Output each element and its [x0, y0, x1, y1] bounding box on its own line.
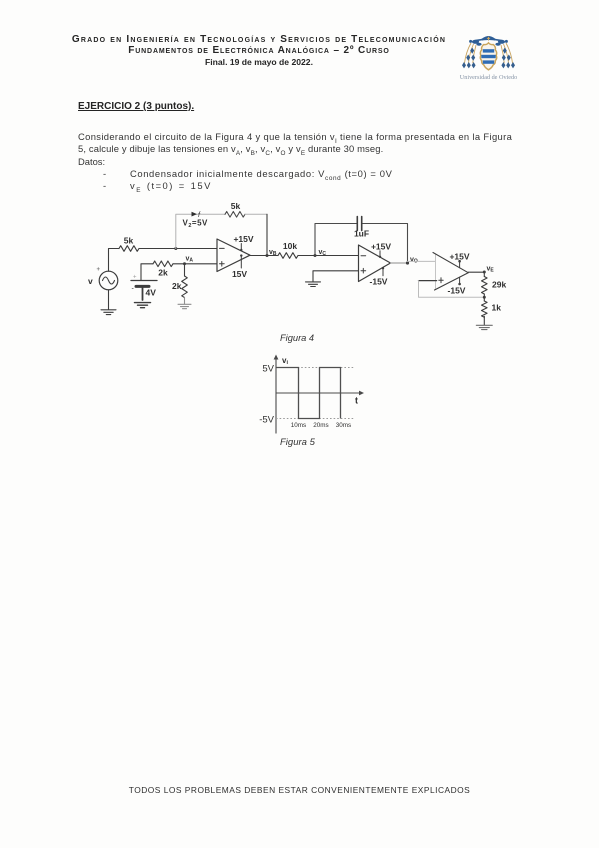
resistor 2k horizontal — [153, 261, 173, 267]
op-amp U3 — [433, 253, 468, 291]
wire 2k to node A — [173, 263, 217, 265]
resistor 5k feedback — [225, 212, 245, 218]
ground (battery) — [135, 303, 151, 308]
ground (source) — [101, 310, 116, 315]
svg-text:+15V: +15V — [449, 252, 469, 262]
ground (U2 +) — [306, 282, 321, 287]
svg-text:5k: 5k — [124, 236, 134, 246]
svg-text:-15V: -15V — [370, 277, 388, 287]
battery labels — [132, 275, 157, 298]
bullet 2 — [103, 180, 106, 191]
bullet 1 — [103, 168, 106, 179]
node O — [406, 261, 409, 264]
dashed level -5V — [276, 418, 354, 420]
header line 3 — [0, 57, 518, 67]
svg-text:+15V: +15V — [371, 242, 391, 252]
svg-text:v: v — [88, 276, 93, 286]
svg-text:vO: vO — [410, 257, 418, 265]
wire U2 output to node O — [391, 262, 408, 264]
svg-text:+: + — [133, 275, 137, 281]
exercise title — [78, 101, 194, 112]
wire battery to R 2k — [141, 264, 153, 281]
wire capacitor to node O — [363, 224, 408, 262]
svg-text:10ms: 10ms — [291, 422, 306, 429]
svg-text:5V: 5V — [262, 364, 274, 375]
svg-text:5k: 5k — [231, 201, 241, 211]
node B — [266, 254, 269, 257]
svg-text:1k: 1k — [492, 303, 502, 313]
header line 1 — [0, 34, 518, 45]
footer — [0, 785, 599, 795]
svg-text:10k: 10k — [283, 241, 297, 251]
op-amp U1 — [217, 239, 250, 272]
svg-text:vB: vB — [269, 249, 277, 257]
svg-text:Universidad de Oviedo: Universidad de Oviedo — [460, 74, 517, 81]
wire feedback up (light) — [176, 214, 225, 248]
U3 left edge (light) — [435, 255, 437, 289]
wire R5k to op-amp U1 inverting input — [139, 248, 217, 250]
wire U1 output to node B — [250, 255, 278, 257]
U2 +15V pin — [371, 242, 391, 259]
wire node O to U3 (light) — [408, 260, 436, 262]
svg-text:-15V: -15V — [448, 286, 466, 296]
svg-text:vE: vE — [487, 266, 495, 274]
source vI — [99, 271, 118, 290]
svg-text:4V: 4V — [146, 288, 157, 298]
resistor 29k — [481, 272, 487, 294]
Figura 4 caption — [280, 333, 314, 343]
svg-text:2k: 2k — [158, 268, 168, 278]
ground (2k vertical) — [178, 298, 191, 309]
U1 -15V pin — [232, 254, 247, 279]
svg-text:t: t — [355, 396, 358, 406]
wire U3 output to node E — [468, 271, 484, 273]
current arrow f — [192, 212, 202, 219]
wire source to R 5k — [109, 249, 120, 272]
svg-text:1uF: 1uF — [354, 229, 369, 239]
node feedback junction — [174, 247, 177, 250]
battery 4V — [131, 281, 157, 301]
cords — [465, 43, 513, 63]
paragraph — [78, 131, 512, 142]
CIRCUIT SVG — [80, 196, 540, 336]
svg-text:15V: 15V — [232, 269, 247, 279]
U3 +15V pin — [449, 252, 469, 268]
resistor 2k vertical — [182, 264, 188, 298]
y axis — [274, 355, 279, 434]
galero hat — [482, 36, 495, 40]
shield bars — [481, 49, 495, 64]
wire source to ground — [108, 290, 110, 310]
wire node C up to capacitor — [315, 224, 356, 256]
node C — [314, 254, 317, 257]
svg-text:20ms: 20ms — [313, 422, 328, 429]
wire 1k to ground — [483, 316, 485, 325]
node A — [183, 262, 186, 265]
svg-text:+: + — [97, 267, 101, 273]
resistor 1k — [481, 294, 487, 317]
svg-text:vi: vi — [282, 356, 288, 366]
U3 -15V pin — [448, 277, 466, 295]
shield — [480, 43, 496, 70]
op-amp U2 — [359, 245, 391, 282]
square wave vi — [276, 368, 341, 419]
wire feedback to output node — [245, 214, 267, 255]
U2 -15V pin — [370, 267, 388, 287]
source label v — [88, 267, 101, 286]
capacitor C1 1uF — [357, 217, 361, 231]
cross — [487, 37, 490, 41]
svg-text:29k: 29k — [492, 280, 506, 290]
Figura 5 caption — [280, 437, 315, 448]
right tassels — [501, 48, 515, 69]
resistor 5k input — [119, 246, 139, 252]
resistor 10k — [278, 253, 298, 259]
node E — [483, 271, 486, 274]
GRAPH SVG — [250, 350, 400, 440]
svg-text:-5V: -5V — [259, 415, 274, 426]
svg-text:vA: vA — [186, 256, 194, 264]
svg-text:+15V: +15V — [233, 234, 253, 244]
x axis — [276, 391, 364, 396]
node divider junction — [483, 296, 486, 299]
U3 + input wire — [419, 278, 444, 283]
feedback wire from divider to U3 (light) — [419, 281, 485, 298]
wire U2 + input to ground — [313, 271, 359, 282]
hat side knots — [472, 40, 479, 44]
svg-text:2k: 2k — [172, 281, 182, 291]
left tassels — [462, 48, 476, 69]
wire 10k to node C and U2 — [298, 255, 359, 257]
logo Universidad de Oviedo — [455, 20, 530, 82]
ground (divider) — [476, 325, 492, 329]
dashed level +5V — [276, 367, 354, 369]
header line 2 — [0, 45, 518, 56]
svg-text:vC: vC — [319, 249, 327, 257]
svg-text:30ms: 30ms — [336, 422, 351, 429]
svg-text:V2=5V: V2=5V — [183, 219, 209, 230]
svg-text:-: - — [132, 286, 135, 293]
U1 +15V pin — [233, 234, 253, 251]
